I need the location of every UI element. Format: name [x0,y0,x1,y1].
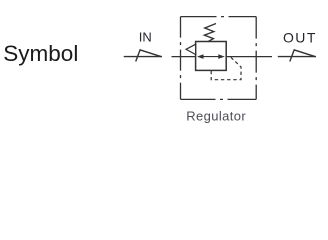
svg-text:Regulator: Regulator [186,108,246,123]
svg-text:Symbol: Symbol [3,41,78,66]
svg-text:OUT: OUT [283,30,317,46]
svg-text:IN: IN [139,29,152,44]
